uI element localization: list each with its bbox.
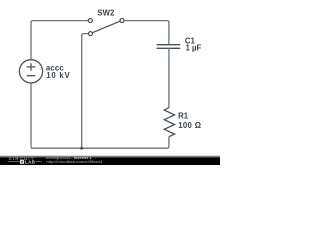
watermark CircuitLab logo [8,156,42,165]
wire from C1 bottom to R1 top [168,48,170,107]
capacitor C1 [157,45,181,49]
watermark bar background [0,155,220,158]
svg-text:10 kV: 10 kV [46,71,70,80]
terminal throw (left lower) [89,32,93,36]
wire from SW2 common right and down to C1 top [124,21,169,44]
wire from V1 bottom down to bottom net [31,83,35,149]
wire from SW2 throw terminal down to bottom net [82,34,89,149]
bottom net wire [33,147,167,149]
svg-text:1 µF: 1 µF [186,44,202,53]
svg-text:SW2: SW2 [97,9,115,18]
terminal pole (left upper) [88,19,92,23]
svg-text:http://circuitlab.com/c/38xa44: http://circuitlab.com/c/38xa44 [46,159,103,164]
voltage source V1 [19,60,42,83]
switch blade [92,21,120,33]
terminal common (right) [120,19,124,23]
svg-text:R1: R1 [178,112,189,121]
svg-text:100 Ω: 100 Ω [178,121,201,130]
svg-text:LAB: LAB [25,160,35,165]
resistor R1 zigzag [164,108,174,137]
wire from R1 bottom to bottom net [166,137,169,149]
switch SW2 [88,19,124,36]
junction dot on bottom net [80,147,83,150]
wire from V1 top up and right to SW2 pole terminal [31,21,88,61]
